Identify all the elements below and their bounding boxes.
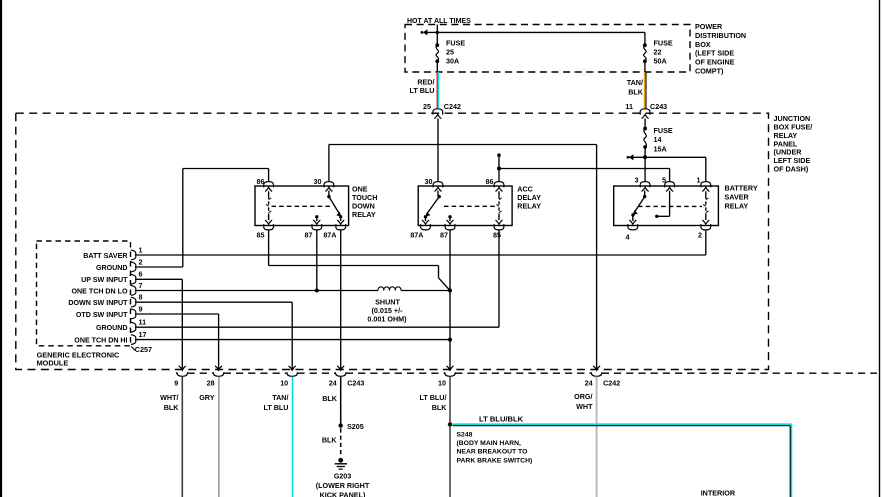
wire fuse14 stub arrow left (627, 154, 645, 160)
shunt label (367, 297, 407, 323)
wire LT BLU/BLK horizontal (453, 424, 792, 426)
junction box label (774, 114, 813, 173)
svg-text:87: 87 (440, 231, 448, 240)
svg-text:DOWN SW INPUT: DOWN SW INPUT (68, 299, 128, 307)
svg-text:2: 2 (698, 231, 702, 240)
svg-text:28: 28 (207, 378, 215, 387)
svg-text:10: 10 (438, 378, 446, 387)
wire BLK to S205 (340, 377, 342, 426)
svg-text:87: 87 (305, 231, 313, 240)
GEM pin 7 ONE TCH DN LO (72, 281, 143, 296)
svg-text:C242: C242 (603, 378, 620, 387)
node relay1 87 on pin7 line (315, 289, 319, 293)
relay U1 pin 86 terminal (257, 177, 274, 192)
svg-text:RELAY: RELAY (725, 201, 749, 210)
svg-text:9: 9 (174, 378, 178, 387)
connector 25 C242 (423, 102, 461, 119)
svg-text:FUSE: FUSE (654, 126, 673, 135)
svg-text:ONE TCH DN HI: ONE TCH DN HI (74, 336, 127, 344)
fuse 25 30A (435, 43, 439, 72)
svg-text:OF DASH): OF DASH) (774, 165, 809, 174)
relay U3 pin 3 terminal (635, 176, 651, 192)
label TAN/BLK (627, 78, 644, 97)
wire GEM pin7 ONE TCH DN LO (shunt line) (136, 290, 451, 292)
fuse 14 output node (643, 155, 647, 159)
svg-text:(LOWER RIGHT: (LOWER RIGHT (316, 481, 370, 490)
svg-text:BLK: BLK (322, 394, 338, 403)
svg-text:COMPT): COMPT) (695, 67, 724, 76)
svg-text:C257: C257 (135, 345, 152, 354)
relay U3 coil link (dashed) (638, 205, 702, 207)
relay U1 one touch down relay box (255, 186, 349, 226)
relay U2 label (517, 184, 541, 210)
wire GEM pin6 UP SW INPUT to exit 9 (136, 279, 183, 370)
wire GEM pin8 DOWN SW INPUT to exit 10 TAN/LTBLU (136, 302, 293, 370)
svg-text:ONE TCH DN LO: ONE TCH DN LO (72, 287, 128, 295)
svg-text:LT BLU/BLK: LT BLU/BLK (479, 415, 524, 424)
svg-text:86: 86 (486, 177, 494, 186)
label LT BLU/BLK horizontal (479, 415, 524, 424)
exit connector 24 C242 (585, 366, 621, 387)
svg-text:25: 25 (423, 102, 431, 111)
GEM pin 17 ONE TCH DN HI (74, 330, 146, 345)
svg-text:11: 11 (139, 318, 147, 327)
svg-text:3: 3 (635, 176, 639, 185)
relay U1 coil link (dashed) (272, 205, 333, 207)
svg-text:GRY: GRY (199, 393, 215, 402)
label GRY (199, 393, 215, 402)
svg-text:ORG/: ORG/ (574, 392, 592, 401)
svg-text:LT BLU/: LT BLU/ (419, 393, 446, 402)
svg-text:BLK: BLK (628, 88, 644, 97)
svg-text:BATT SAVER: BATT SAVER (83, 252, 127, 260)
label INTERIOR (701, 488, 736, 497)
svg-text:GROUND: GROUND (96, 264, 128, 272)
GEM module label (37, 350, 120, 367)
wire GEM pin1 BATT SAVER to battery saver relay pin2 (136, 230, 706, 255)
svg-text:RELAY: RELAY (517, 202, 541, 211)
relay U1 pin 30 terminal (314, 177, 334, 192)
svg-text:S248: S248 (457, 431, 473, 438)
bus arrow (left) (421, 29, 428, 35)
wire fuse14 to battery saver pin 3 (644, 157, 646, 182)
wire LT BLU/BLK vertical (790, 424, 791, 497)
label G203 (316, 472, 370, 497)
GEM pin 6 UP SW INPUT (81, 270, 142, 285)
relay U2 switch (424, 191, 441, 221)
fuse 25 value label (446, 39, 465, 66)
svg-text:BATTERY: BATTERY (725, 184, 758, 193)
svg-text:G203: G203 (334, 472, 352, 481)
svg-text:30: 30 (314, 177, 322, 186)
relay U3 pin 4 terminal (626, 220, 638, 242)
svg-text:TAN/: TAN/ (627, 78, 643, 87)
label LT BLU/BLK (419, 393, 447, 412)
wire fuse14 to battery saver pin 1 (645, 157, 706, 182)
svg-text:OF ENGINE: OF ENGINE (695, 58, 735, 67)
wire TAN/LT BLU (292, 377, 294, 497)
svg-text:WHT: WHT (576, 402, 593, 411)
wire BLK dashed to ground (340, 428, 342, 457)
wire relay1 85 down and across (269, 230, 450, 291)
svg-text:LT BLU: LT BLU (263, 403, 288, 412)
svg-text:22: 22 (654, 48, 662, 57)
junction box fuse/relay panel (dashed) (16, 113, 769, 369)
svg-text:1: 1 (139, 245, 143, 254)
svg-text:86: 86 (257, 177, 265, 186)
svg-text:PARK BRAKE SWITCH): PARK BRAKE SWITCH) (457, 457, 533, 464)
fuse 14 15A (643, 127, 647, 158)
relay U1 label (352, 184, 377, 219)
svg-text:UP SW INPUT: UP SW INPUT (81, 276, 128, 284)
svg-text:KICK PANEL): KICK PANEL) (320, 490, 366, 497)
svg-text:NEAR BREAKOUT TO: NEAR BREAKOUT TO (457, 449, 528, 456)
svg-text:POWER: POWER (695, 22, 723, 31)
svg-text:BOX: BOX (695, 40, 711, 49)
svg-text:MODULE: MODULE (37, 359, 69, 368)
relay U3 pin 5 contact (655, 191, 670, 218)
wire TAN/BLK (645, 72, 647, 109)
relay U3 switch (631, 191, 646, 221)
relay U2 contact 87 (448, 215, 451, 221)
label BLK 2 (322, 436, 338, 445)
hot feed bus wire (424, 25, 645, 46)
relay U1 pin 85 terminal (257, 220, 274, 240)
wire ACC 86 to battery saver pin 5 (499, 169, 670, 183)
wire C242 to ACC relay 30 (437, 119, 439, 183)
wire relay2 87 down to exit 10 (449, 230, 451, 370)
wire relay1 87A down to exit 24 (340, 230, 342, 370)
svg-text:14: 14 (654, 135, 662, 144)
shunt resistor (378, 287, 401, 291)
svg-text:WHT/: WHT/ (160, 393, 178, 402)
wire ORG/WHT (596, 377, 598, 497)
connector 11 C243 (625, 102, 667, 119)
svg-text:RELAY: RELAY (352, 210, 376, 219)
wire GEM pin 2 to one-touch relay 86 (136, 169, 269, 268)
wire RED/LT BLU (437, 72, 438, 109)
relay U3 battery saver relay box (614, 186, 719, 226)
GEM pin 1 BATT SAVER (83, 245, 142, 260)
svg-text:9: 9 (139, 304, 143, 313)
label HOT AT ALL TIMES (407, 18, 471, 25)
svg-text:BLK: BLK (164, 403, 180, 412)
fuse 22 value label (654, 39, 673, 66)
GEM connector label C257 (131, 345, 152, 354)
relay U2 pin 86 terminal (486, 177, 504, 192)
svg-text:6: 6 (139, 270, 143, 279)
node pin7/diagonal/relay2-87 junction (448, 289, 452, 293)
exit connector 10 ltblu (438, 366, 455, 387)
wire fuse22 top (644, 32, 646, 45)
exit connector 10 (280, 366, 297, 387)
relay U3 pin 2 terminal (698, 220, 711, 240)
svg-text:85: 85 (257, 231, 265, 240)
svg-text:1: 1 (697, 176, 701, 185)
svg-text:OTD SW INPUT: OTD SW INPUT (76, 311, 128, 319)
svg-text:C243: C243 (347, 378, 364, 387)
svg-text:4: 4 (626, 233, 630, 242)
svg-text:0.001 OHM): 0.001 OHM) (367, 314, 407, 323)
svg-text:25: 25 (446, 48, 454, 57)
relay U2 acc delay relay box (418, 186, 512, 226)
label RED/LT BLU (409, 77, 434, 95)
svg-text:15A: 15A (654, 144, 667, 153)
GEM pin 11 GROUND (96, 318, 146, 333)
svg-text:(LEFT SIDE: (LEFT SIDE (695, 49, 734, 58)
relay U2 coil (496, 191, 501, 220)
svg-text:5: 5 (662, 176, 666, 185)
svg-text:7: 7 (139, 281, 143, 290)
svg-text:HOT AT ALL TIMES: HOT AT ALL TIMES (407, 18, 471, 25)
svg-text:TAN/: TAN/ (272, 393, 288, 402)
wire LT BLU/BLK down (449, 377, 451, 497)
ground G203 (335, 458, 347, 469)
svg-text:10: 10 (280, 378, 288, 387)
right page border line (879, 0, 881, 497)
svg-text:8: 8 (139, 293, 143, 302)
label WHT/BLK (160, 393, 179, 412)
svg-text:C242: C242 (444, 102, 461, 111)
wire GEM pin17 ONE TCH DN HI to junction (136, 339, 451, 341)
relay U1 pin 87A terminal (323, 220, 345, 239)
splice S205 (339, 422, 364, 431)
svg-text:FUSE: FUSE (446, 39, 465, 48)
relay U1 contact 87 (315, 215, 318, 221)
svg-text:SHUNT: SHUNT (375, 297, 400, 306)
wire GEM pin9 OTD SW INPUT to exit 28 (136, 314, 219, 370)
relay U3 pin 5 terminal (662, 176, 675, 192)
power distribution box label (695, 22, 746, 76)
svg-text:24: 24 (329, 378, 337, 387)
svg-text:INTERIOR: INTERIOR (701, 488, 736, 497)
fuse 22 50A (643, 43, 647, 72)
exit connector 9 (174, 366, 187, 387)
GEM pin 2 GROUND (96, 257, 143, 272)
GEM pin 8 DOWN SW INPUT (68, 293, 142, 308)
relay U2 coil link (dashed) (444, 205, 496, 207)
svg-text:85: 85 (493, 231, 501, 240)
left page border line (0, 0, 2, 497)
svg-text:DISTRIBUTION: DISTRIBUTION (695, 31, 746, 40)
label ORG/WHT (574, 392, 593, 411)
relay U2 pin 87 terminal (440, 220, 455, 240)
svg-text:30A: 30A (446, 57, 459, 66)
wire GRY (218, 377, 220, 497)
svg-text:FUSE: FUSE (654, 39, 673, 48)
splice S248 (448, 422, 452, 426)
relay U2 pin 30 terminal (425, 177, 443, 192)
relay U3 pin 1 terminal (697, 176, 711, 192)
svg-text:11: 11 (625, 102, 633, 111)
relay U2 pin 87A terminal (410, 220, 430, 240)
svg-text:2: 2 (139, 257, 143, 266)
label TAN/LT BLU (263, 393, 288, 412)
wire WHT/BLK (181, 377, 183, 497)
exit connector 28 (207, 366, 224, 387)
svg-text:GROUND: GROUND (96, 324, 128, 332)
GEM pin 9 OTD SW INPUT (76, 304, 143, 319)
relay U3 label (725, 184, 758, 211)
node pin17 junction (448, 338, 452, 342)
label S248 (457, 431, 533, 464)
svg-text:RED/: RED/ (417, 77, 434, 86)
fuse 14 value label (654, 126, 673, 153)
svg-text:LT BLU: LT BLU (409, 86, 434, 95)
svg-text:(BODY MAIN HARN,: (BODY MAIN HARN, (457, 440, 522, 447)
svg-text:S205: S205 (347, 422, 364, 431)
svg-text:30: 30 (425, 177, 433, 186)
svg-text:SAVER: SAVER (725, 193, 750, 202)
wire ACC 86 junction (497, 155, 501, 182)
svg-text:87A: 87A (323, 230, 336, 239)
svg-text:87A: 87A (410, 231, 423, 240)
svg-text:C243: C243 (650, 102, 667, 111)
relay U1 pin 87 terminal (305, 220, 322, 240)
exit connector 24 C243 (329, 366, 365, 387)
wire one-touch relay 30 to C242 exit (329, 145, 597, 371)
generic electronic module box (dashed) (37, 241, 131, 346)
svg-text:24: 24 (585, 378, 593, 387)
wire GEM pin11 GROUND to relay2 85 (136, 230, 500, 327)
relay U1 coil (266, 191, 271, 220)
relay U2 pin 85 terminal (493, 220, 504, 240)
svg-text:BLK: BLK (322, 436, 338, 445)
power distribution box (dashed) (405, 25, 690, 73)
svg-text:BLK: BLK (432, 403, 448, 412)
label BLK (322, 394, 338, 403)
relay U3 coil (703, 191, 708, 220)
node above ACC relay 86 (497, 153, 501, 157)
wire C243 to fuse 14 (644, 119, 646, 129)
svg-text:50A: 50A (654, 57, 667, 66)
relay U1 switch (327, 191, 342, 221)
lower harness boundary (dashed) (176, 372, 877, 374)
wire relay1 87 down (316, 230, 318, 291)
svg-text:17: 17 (139, 330, 147, 339)
